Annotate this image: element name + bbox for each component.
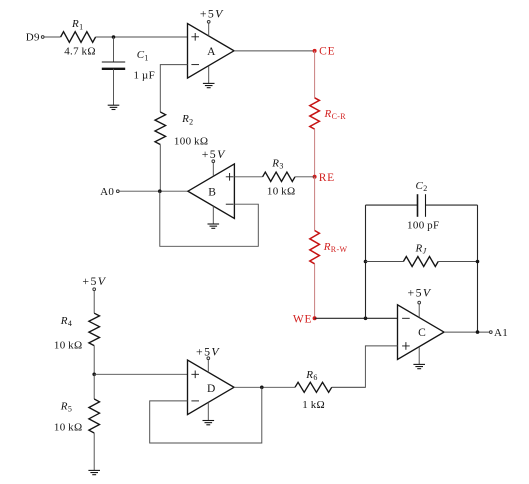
wire op-amp A output to CE [234,50,315,52]
wire op-amp B feedback loop [160,191,258,246]
junction node output/right rail [476,330,480,334]
wire RJ left [366,261,404,263]
wire op-amp A inverting input to R2 [160,65,187,112]
resistor R2 [155,112,166,145]
svg-text:+5V: +5V [196,344,220,358]
junction node below C2 branch [364,317,368,321]
capacitor C2 [417,194,419,217]
capacitor C1 [102,61,125,63]
svg-text:B: B [208,186,216,198]
junction node divider [92,373,96,377]
wire +5V to op-amp D [207,360,209,373]
wire divider node to op-amp D [94,373,187,375]
op-amp D noninverting pin + [191,371,199,379]
junction node A0/R2/feedback [158,189,162,193]
svg-text:CE: CE [319,46,335,58]
junction node RJ right [476,260,480,264]
svg-text:C: C [418,327,426,339]
wire +5V to op-amp C [418,304,420,317]
wire WE to op-amp C inverting input [315,317,398,319]
terminal +5V of B [212,160,215,163]
wire R6 to op-amp C noninverting path [332,386,366,388]
op-amp D inverting pin - [191,400,199,402]
svg-text:RE: RE [319,172,335,184]
svg-text:1 kΩ: 1 kΩ [302,399,325,411]
wire node to C1 [113,37,115,62]
svg-text:1 µF: 1 µF [134,69,156,81]
node WE [313,316,317,320]
svg-text:10 kΩ: 10 kΩ [54,339,83,351]
wire op-amp D to ground [207,402,209,420]
wire op-amp C to ground [418,347,420,364]
op-amp A inverting pin - [191,64,199,66]
resistor R3 [263,172,295,181]
svg-text:D9: D9 [26,32,40,44]
resistor R_C-R [310,98,320,129]
op-amp C [398,305,445,360]
wire +5V to R4 [93,291,95,313]
wire R_R-W to WE [314,264,316,319]
terminal A0 [116,190,119,193]
wire R_C-R to RE [314,129,316,177]
junction node at R1/C1 [112,35,116,39]
wire R5 to ground [93,433,95,470]
node CE [313,49,317,53]
ground below op-amp C [413,363,425,365]
op-amp B noninverting pin + [226,173,234,181]
op-amp A noninverting pin + [191,33,199,41]
terminal +5V of D [207,357,210,360]
svg-text:WE: WE [293,313,312,325]
wire D9 to R1 [44,36,60,38]
svg-text:100 kΩ: 100 kΩ [174,135,208,147]
resistor R4 [89,313,100,345]
svg-text:+5V: +5V [82,274,106,288]
resistor R5 [89,399,100,433]
resistor R6 [295,382,332,392]
resistor R1 [61,32,96,43]
junction node op-amp D output [260,386,264,390]
ground below R5 [88,469,100,471]
svg-text:10 kΩ: 10 kΩ [54,421,83,433]
svg-text:A1: A1 [494,327,508,339]
svg-text:+5V: +5V [202,147,226,161]
wire +5V to op-amp A [208,24,210,36]
wire op-amp D output to R6 [234,386,295,388]
wire A0 to op-amp B output [120,190,188,192]
terminal A1 [489,331,492,334]
wire C1 to ground [113,69,115,105]
wire R3 to RE [295,176,315,178]
wire divider node to R5 [93,374,95,399]
wire R2 to node A0 [159,145,161,192]
wire op-amp C noninverting input to R6 [332,346,398,387]
svg-text:10 kΩ: 10 kΩ [267,186,296,198]
resistor RJ [403,257,438,267]
terminal +5V of divider [93,288,96,291]
wire right rail down to output node [477,205,479,332]
op-amp B inverting pin - [226,203,234,205]
wire op-amp D feedback loop [150,387,262,443]
wire RJ right [438,261,477,263]
wire R4 to divider node [93,346,95,375]
terminal D9 [41,36,44,39]
wire op-amp A to ground [208,66,210,83]
wire +5V to op-amp B [212,163,214,176]
op-amp B [188,164,235,219]
ground below C1 [108,104,120,106]
wire op-amp B to ground [212,206,214,224]
svg-text:+5V: +5V [200,7,224,21]
wire RE to R_R-W [314,177,316,231]
node RE [313,175,317,179]
ground below op-amp A [203,82,215,84]
op-amp D [188,360,235,415]
resistor R_R-W [310,231,320,264]
op-amp C inverting pin - [402,317,410,319]
op-amp C noninverting pin + [402,342,410,350]
wire CE to R_C-R [314,51,316,98]
svg-text:4.7 kΩ: 4.7 kΩ [64,45,96,57]
wire C2 right plate to right rail [426,204,478,206]
svg-text:A: A [207,46,216,58]
wire to C2 left plate [366,204,418,206]
wire junction up to C2 branch [365,205,367,318]
wire op-amp B noninverting input to R3 [234,176,262,178]
ground below op-amp D [203,420,215,422]
wire R1 to op-amp A noninverting input [96,36,188,38]
svg-text:D: D [207,383,216,395]
terminal +5V of A [207,20,210,23]
svg-text:+5V: +5V [408,286,432,300]
terminal +5V of C [418,301,421,304]
svg-text:A0: A0 [100,186,114,198]
ground below op-amp B [208,223,220,225]
wire op-amp C output to A1 [444,331,489,333]
junction node RJ left [364,260,368,264]
svg-text:100 pF: 100 pF [407,219,439,231]
op-amp A [188,24,235,79]
